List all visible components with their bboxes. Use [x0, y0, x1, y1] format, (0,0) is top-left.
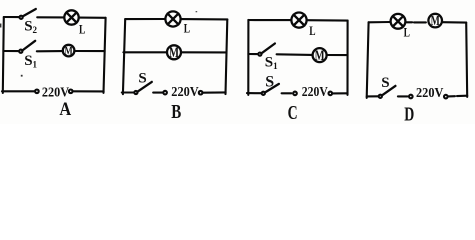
svg-text:220V: 220V: [416, 86, 443, 101]
wire: B middle rail left segment: [123, 51, 167, 53]
wire: B bottom rail right segment: [203, 91, 226, 93]
svg-text:L: L: [309, 23, 316, 38]
switch S pivot (C): [262, 92, 265, 95]
wire: D top rail left segment: [369, 21, 391, 23]
wire: C left vertical: [247, 20, 249, 95]
wire: A right vertical: [104, 18, 106, 93]
wire: A top rail left segment: [4, 16, 20, 18]
svg-text:220V: 220V: [171, 85, 198, 100]
wire: C middle rail right segment: [327, 54, 348, 56]
wire: C bottom rail right segment: [332, 92, 347, 94]
wire: C top rail right segment: [307, 19, 348, 21]
wire: C top rail left segment: [248, 19, 291, 21]
lamp L (circuit C): [291, 13, 306, 28]
battery terminal (D left): [409, 95, 413, 99]
svg-text:S: S: [265, 74, 274, 91]
wire: D top rail dash 1: [407, 21, 413, 23]
switch S blade (C): [265, 84, 279, 93]
lamp L (circuit D): [391, 14, 406, 29]
wire: C middle rail left segment: [248, 53, 258, 55]
svg-text:B: B: [171, 101, 181, 123]
svg-text:L: L: [404, 25, 411, 40]
wire: C middle rail middle segment: [277, 53, 312, 56]
svg-text:M: M: [315, 48, 325, 64]
motor M (circuit D): [428, 14, 442, 28]
wire: A bottom rail right segment: [73, 90, 104, 92]
battery terminal (B left): [163, 91, 167, 95]
motor M (circuit B): [167, 45, 181, 59]
lamp L (circuit B): [165, 11, 180, 26]
wire: D bottom rail right dash 1: [448, 95, 455, 97]
wire: B bottom rail left segment: [122, 91, 135, 93]
wire: D top rail dash 2: [414, 21, 426, 23]
wire: B bottom rail dash: [153, 92, 162, 94]
switch S blade (B): [137, 82, 152, 92]
svg-text:S: S: [138, 70, 146, 86]
svg-text:M: M: [431, 13, 440, 28]
wire: D bottom rail left segment: [367, 95, 379, 97]
svg-text:220V: 220V: [302, 85, 328, 100]
wire: A middle rail middle segment: [37, 50, 62, 52]
battery terminal (A right): [69, 90, 73, 94]
svg-text:A: A: [59, 99, 71, 120]
battery terminal (C left): [293, 92, 297, 96]
wire: A middle rail right segment: [75, 50, 105, 52]
motor M (circuit A): [63, 45, 75, 57]
battery terminal (D right): [444, 95, 448, 99]
switch S pivot (D): [379, 95, 382, 98]
switch S2 pivot: [20, 16, 23, 19]
wire: C bottom rail left segment: [247, 92, 262, 94]
wire: B right vertical: [226, 19, 228, 94]
svg-text:M: M: [169, 45, 179, 61]
lamp L (circuit A): [64, 10, 78, 24]
switch S1 pivot (C): [258, 53, 261, 56]
wire: A left vertical: [3, 17, 4, 93]
switch S blade (D): [382, 86, 396, 96]
battery terminal (C right): [329, 92, 333, 96]
battery terminal (B right): [199, 91, 203, 95]
svg-text:S: S: [381, 75, 389, 91]
scan speck near left margin: [0, 24, 1, 28]
switch S2 blade: [23, 9, 36, 16]
wire: B top rail right segment: [181, 18, 228, 20]
wire: D left vertical: [367, 22, 369, 98]
svg-text:L: L: [184, 20, 191, 35]
switch S1 blade (C): [261, 44, 275, 54]
wire: A top rail middle segment: [37, 16, 63, 18]
battery terminal (A left): [35, 90, 39, 94]
switch S pivot (B): [134, 91, 137, 94]
svg-text:D: D: [404, 103, 414, 124]
wire: D top rail right segment: [443, 21, 467, 23]
wire: A bottom rail left segment: [2, 90, 35, 92]
switch S1 blade: [22, 41, 35, 51]
switch S1 pivot: [19, 50, 22, 53]
wire: D bottom rail dash: [398, 95, 408, 97]
wire: B middle rail right segment: [181, 51, 227, 53]
wire: C bottom rail dash: [282, 92, 292, 94]
svg-text:L: L: [79, 22, 86, 37]
wire: D right vertical: [466, 23, 467, 97]
wire: B left vertical: [123, 19, 125, 94]
scan speck below S1 (A): [21, 75, 23, 77]
svg-text:M: M: [65, 44, 73, 58]
scan speck above lamp (B): [196, 11, 198, 12]
wire: A middle rail left segment: [3, 50, 19, 52]
wire: C right vertical: [346, 21, 348, 95]
wire: A top rail right segment: [79, 17, 106, 19]
svg-text:C: C: [288, 102, 298, 124]
wire: B top rail left segment: [125, 18, 165, 20]
motor M (circuit C): [313, 48, 327, 62]
wire: D bottom rail right dash 2: [457, 95, 467, 98]
